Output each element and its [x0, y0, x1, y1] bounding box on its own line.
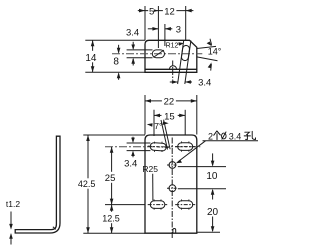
oval slot (top view): [152, 50, 164, 58]
dim 3 right arrow: [165, 28, 172, 30]
14 deg lower arrow: [210, 64, 213, 71]
svg-text:7°: 7°: [154, 121, 162, 131]
slot angle line L2: [185, 41, 191, 85]
label phi symbol: [222, 132, 227, 140]
dim 3.4 (below top view) right arrow: [185, 81, 192, 83]
dim 20 bottom ext line: [197, 231, 220, 233]
notch half-circle (front view): [173, 229, 176, 234]
dim 3 left arrow: [148, 28, 159, 30]
dim 15 ext lines: [153, 110, 155, 136]
svg-text:14°: 14°: [208, 47, 222, 57]
dim 3.4 down arrow: [132, 42, 134, 49]
svg-text:3: 3: [176, 24, 181, 35]
svg-text:22: 22: [164, 96, 175, 107]
tilted slot (top view): [181, 45, 190, 61]
dim 25 bottom ext: [105, 204, 145, 206]
dim line 5/12: [138, 10, 145, 12]
14 deg lower ray: [197, 57, 218, 61]
dim 12.5 line: [111, 205, 113, 234]
dim 14 line: [92, 40, 94, 72]
C1 horizontal tick: [167, 164, 178, 166]
hole C1: [169, 162, 176, 169]
dim 10 upper arrow: [212, 153, 214, 165]
42.5 top ext: [83, 134, 145, 136]
label glyph KONG (kong3): [244, 131, 255, 139]
notch centerline (top view): [172, 61, 174, 81]
svg-text:R12: R12: [166, 42, 179, 49]
svg-text:t1.2: t1.2: [6, 199, 20, 209]
front 3.4 down arrow: [132, 137, 134, 142]
svg-text:12: 12: [164, 6, 175, 17]
bend line (top view): [145, 68, 197, 70]
svg-text:10: 10: [206, 171, 218, 182]
7 deg slant line 1: [161, 120, 168, 150]
C2 horizontal tick: [167, 187, 178, 189]
R25 leader: [152, 174, 154, 201]
bottom slot left: [150, 201, 165, 209]
dim text 12.5: [100, 212, 122, 223]
14 deg upper ray: [197, 46, 216, 48]
dim 22 line: [145, 100, 197, 102]
slot edge ext lines (top view, for 3.4): [127, 49, 153, 51]
t1.2 down arrow: [10, 212, 12, 229]
7 deg slant line 2: [164, 120, 171, 150]
dim 22 ext lines: [144, 95, 146, 135]
dim text 12: [163, 5, 177, 16]
dim text 22: [162, 96, 176, 106]
14 deg upper arrow: [210, 39, 212, 45]
svg-text:12.5: 12.5: [102, 213, 120, 223]
dim 10 ext lines: [178, 166, 226, 168]
dim 42.5 line: [87, 135, 89, 233]
ext line x=158.4: [157, 6, 159, 48]
dim text 25: [103, 172, 118, 183]
svg-text:42.5: 42.5: [78, 179, 96, 189]
gray centerline top slot row: [105, 146, 200, 148]
svg-text:15: 15: [164, 111, 175, 122]
top slot left (7deg tilt): [147, 142, 168, 151]
svg-text:2: 2: [208, 131, 213, 141]
front 3.4 up arrow: [132, 152, 134, 157]
top slot right dash axis: [175, 146, 195, 148]
svg-text:14: 14: [85, 53, 97, 64]
bottom slot right: [178, 201, 193, 209]
dim text 5: [148, 5, 155, 16]
bottom slot left dash axis: [148, 204, 168, 206]
dim 15 arrows: [154, 114, 162, 116]
42.5 bottom ext: [83, 232, 145, 234]
dim 3.4 up arrow: [132, 59, 134, 66]
gray slot centerline (top view): [112, 53, 202, 55]
hole C2: [169, 185, 176, 192]
top slot right: [178, 143, 193, 151]
dim 3.4 (slot width, below top view) left arrow: [170, 81, 178, 83]
slot angle line L1: [178, 41, 184, 85]
front 3.4 ext lines: [127, 142, 151, 144]
front plate outline: [145, 135, 197, 233]
top dims: ext line x=145: [144, 6, 146, 40]
svg-text:3.4: 3.4: [229, 131, 242, 141]
notch half-circle on bend line (top view): [169, 66, 176, 70]
dim 25 line: [111, 147, 113, 205]
svg-text:R25: R25: [142, 164, 158, 174]
svg-text:3.4: 3.4: [124, 158, 137, 169]
svg-text:5: 5: [149, 6, 154, 17]
dim text 14: [84, 51, 99, 63]
label underline: [203, 140, 259, 142]
bend tick: [53, 227, 56, 230]
dim 20 lower arrow: [212, 217, 214, 232]
svg-text:3.4: 3.4: [126, 27, 139, 38]
dim 8 lower arrow: [118, 74, 120, 80]
t1.2 up arrow: [10, 234, 12, 244]
top view plate outline: [145, 40, 197, 72]
ext line x=164.9 (for dim 3): [164, 24, 166, 46]
R12 arrow: [178, 42, 182, 45]
vertical centerline (front view): [171, 138, 173, 239]
label glyph GE (ge4): [214, 131, 221, 140]
7 deg right arrow: [163, 121, 169, 125]
svg-text:25: 25: [105, 173, 116, 184]
bottom slot right dash axis: [175, 204, 195, 206]
dim 10 lower arrow (shared with 20): [212, 190, 214, 200]
left extension line bottom (y=72.8): [85, 71, 145, 73]
dim 8 upper arrow: [118, 45, 120, 53]
slot end tick marks: [154, 141, 189, 209]
side view L profile: [15, 136, 60, 233]
label leader arrow: [178, 141, 206, 162]
dim text 42.5: [76, 178, 97, 188]
svg-text:8: 8: [113, 56, 119, 67]
slash through oval slot: [153, 50, 164, 57]
ext line x=185.7: [185, 6, 187, 40]
svg-text:3.4: 3.4: [198, 77, 211, 88]
left extension line top (y=41): [85, 39, 145, 41]
7 deg left arrow: [147, 123, 153, 127]
